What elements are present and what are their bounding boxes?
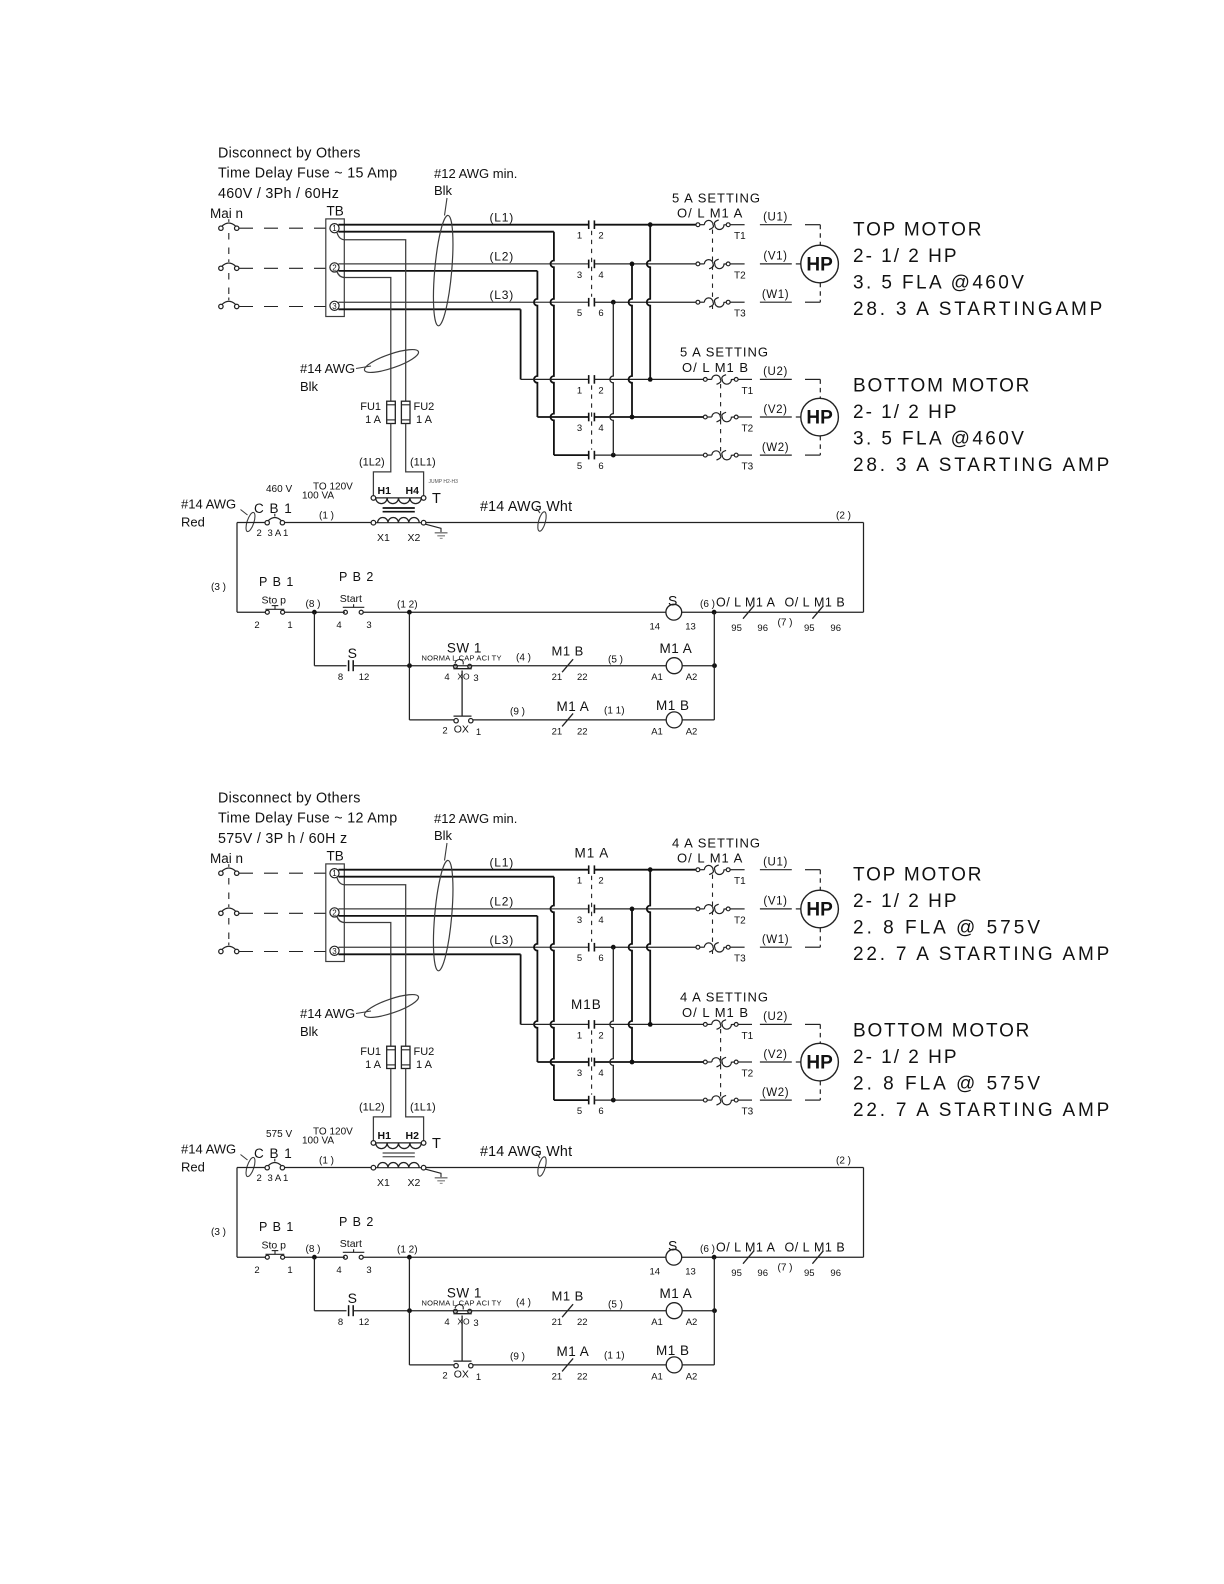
svg-text:M1 A: M1 A: [575, 846, 610, 861]
wire contactor M1B to overload (460V diagram): [594, 416, 703, 418]
svg-text:(L3): (L3): [490, 288, 515, 302]
wire contactor M1A to overload (575V diagram): [594, 946, 695, 948]
junction node T2 tie (460V diagram): [630, 262, 635, 267]
svg-text:21: 21: [552, 727, 563, 738]
svg-text:TB: TB: [327, 849, 344, 864]
svg-text:Sto p: Sto p: [262, 595, 287, 607]
svg-text:460 V: 460 V: [266, 484, 292, 495]
transformer T primary (575V diagram): [371, 1141, 376, 1146]
overload heater O/L M1A T1 (460V diagram): [696, 223, 700, 227]
svg-text:1 A: 1 A: [365, 1059, 382, 1071]
svg-text:22: 22: [577, 672, 588, 683]
svg-text:2: 2: [257, 1173, 262, 1184]
svg-text:T3: T3: [742, 462, 754, 473]
svg-text:5: 5: [577, 1106, 582, 1117]
svg-text:BOTTOM MOTOR: BOTTOM MOTOR: [853, 1021, 1031, 1042]
svg-text:Red: Red: [181, 515, 205, 530]
wire OX to contact M1A (460V diagram): [473, 719, 666, 721]
node rung2 at 1 2 drop (575V diagram): [407, 1308, 412, 1313]
dashed wire Main to TB (460V diagram): [239, 227, 326, 229]
svg-text:JUMP H2-H3: JUMP H2-H3: [429, 479, 459, 485]
wire node 8 drop (575V diagram): [313, 1257, 315, 1311]
wire (1L1) FU2 to H4 (575V diagram): [406, 1069, 424, 1141]
svg-text:NORMA L CAP ACI TY: NORMA L CAP ACI TY: [422, 653, 502, 662]
svg-text:2: 2: [332, 263, 337, 272]
wire lead U1 (460V diagram): [760, 224, 792, 226]
svg-text:OX: OX: [454, 724, 469, 736]
svg-text:4: 4: [444, 1317, 449, 1328]
wire coil M1A to right (460V diagram): [682, 665, 714, 667]
svg-text:Start: Start: [340, 1238, 362, 1250]
svg-text:C B 1: C B 1: [254, 501, 293, 516]
svg-text:(1 1): (1 1): [604, 1351, 625, 1362]
wire (3) left rail (575V diagram): [236, 1168, 238, 1258]
svg-text:5: 5: [577, 308, 582, 319]
svg-text:(8 ): (8 ): [306, 1244, 321, 1255]
wire contactor M1B to overload (575V diagram): [594, 1023, 703, 1025]
svg-text:M1 B: M1 B: [552, 1289, 584, 1304]
motor HP bottom (575V diagram): [801, 1043, 839, 1081]
wire S contact to coil M1A (575V diagram): [353, 1310, 666, 1312]
svg-text:X2: X2: [408, 1177, 421, 1189]
svg-text:1: 1: [332, 224, 337, 233]
svg-text:(1L2): (1L2): [359, 457, 385, 469]
svg-text:3. 5 FLA @460V: 3. 5 FLA @460V: [853, 273, 1026, 294]
svg-text:(U2): (U2): [763, 366, 788, 378]
selector contact OX (460V diagram): [454, 715, 472, 717]
wire L1 to contactor M1A pole 1 (460V diagram): [339, 224, 589, 226]
contactor M1B contact 3-4 (575V diagram): [588, 1058, 590, 1067]
wire lead V2 (460V diagram): [760, 416, 792, 418]
svg-text:95: 95: [804, 1268, 815, 1279]
svg-text:2: 2: [442, 1371, 447, 1382]
junction node T1 tie (575V diagram): [648, 867, 653, 872]
svg-text:O/ L M1 B: O/ L M1 B: [682, 360, 749, 375]
svg-text:2: 2: [257, 528, 262, 539]
svg-text:A2: A2: [686, 672, 698, 683]
wire Stop to node 8 (460V diagram): [285, 611, 345, 613]
overload heater O/L M1B T2 (460V diagram): [703, 415, 707, 419]
svg-text:Mai n: Mai n: [210, 206, 243, 221]
svg-text:S: S: [348, 645, 357, 661]
node rung2 at 1 2 drop (460V diagram): [407, 663, 412, 668]
svg-text:3: 3: [366, 620, 371, 631]
wire S contact to coil M1A (460V diagram): [353, 665, 666, 667]
svg-text:TB: TB: [327, 204, 344, 219]
dashed linkage contactor M1B (460V diagram): [591, 385, 593, 449]
svg-text:(1L1): (1L1): [410, 1102, 436, 1114]
svg-text:T: T: [432, 1136, 441, 1152]
motor HP bottom (460V diagram): [801, 398, 839, 436]
svg-text:T3: T3: [742, 1107, 754, 1118]
right rail wire (575V diagram): [863, 1168, 865, 1258]
svg-text:Mai n: Mai n: [210, 851, 243, 866]
cable marker ellipse white wire (460V diagram): [536, 511, 548, 532]
terminal TB-2 (575V diagram): [330, 908, 339, 917]
leader line #14 AWG Red (460V diagram): [241, 510, 248, 516]
svg-text:(1 ): (1 ): [319, 511, 334, 522]
fuse FU1 1A (460V diagram): [387, 401, 396, 423]
svg-text:5: 5: [577, 953, 582, 964]
svg-text:(5 ): (5 ): [608, 655, 623, 666]
fuse FU1 1A (575V diagram): [387, 1046, 396, 1068]
svg-text:A2: A2: [686, 1317, 698, 1328]
svg-text:M1 A: M1 A: [660, 641, 693, 656]
svg-text:(7 ): (7 ): [778, 1263, 793, 1274]
wire node 12 to S (575V diagram): [363, 1256, 666, 1258]
svg-text:Time Delay Fuse ~ 15 Amp: Time Delay Fuse ~ 15 Amp: [218, 166, 398, 182]
svg-text:M1 B: M1 B: [656, 1343, 690, 1358]
wire tap L1 to FU2 (460V diagram): [337, 233, 406, 402]
svg-text:(U1): (U1): [763, 857, 788, 869]
svg-text:Disconnect by Others: Disconnect by Others: [218, 791, 361, 807]
svg-text:(V1): (V1): [763, 251, 787, 263]
svg-text:(1 2): (1 2): [397, 1245, 418, 1256]
contactor M1A contact 3-4 (460V diagram): [588, 260, 590, 269]
svg-text:O/ L: O/ L: [716, 1241, 742, 1255]
svg-text:13: 13: [685, 622, 696, 633]
right rail wire (460V diagram): [863, 523, 865, 613]
svg-text:FU1: FU1: [360, 1046, 381, 1058]
svg-text:12: 12: [359, 1317, 370, 1328]
disconnect switch Main pole 3 (460V diagram): [219, 304, 223, 308]
svg-text:3: 3: [473, 1318, 478, 1329]
svg-text:Blk: Blk: [300, 1024, 319, 1039]
terminal TB-3 (460V diagram): [330, 301, 339, 310]
svg-text:(3 ): (3 ): [211, 582, 226, 593]
svg-text:T1: T1: [742, 1031, 754, 1042]
svg-text:(V2): (V2): [763, 404, 787, 416]
dashed linkage Main (460V diagram): [228, 233, 230, 260]
svg-text:O/ L M1 B: O/ L M1 B: [682, 1005, 749, 1020]
wire L1 to contactor M1B pole 3 (575V diagram): [339, 876, 554, 878]
svg-text:H1: H1: [378, 1130, 392, 1142]
svg-text:XO: XO: [457, 672, 470, 682]
wire node 8 drop (460V diagram): [313, 612, 315, 666]
overload heater O/L M1A T1 (575V diagram): [696, 868, 700, 872]
svg-text:Blk: Blk: [300, 379, 319, 394]
disconnect switch Main pole 2 (460V diagram): [219, 266, 223, 270]
svg-text:3. 5 FLA @460V: 3. 5 FLA @460V: [853, 429, 1026, 450]
node (6) (460V diagram): [712, 610, 717, 615]
svg-text:X1: X1: [377, 1177, 390, 1189]
svg-text:4: 4: [598, 915, 603, 926]
cable marker ellipse #14 AWG (460V diagram): [362, 345, 420, 377]
wire (2) X2 to right rail (460V diagram): [426, 522, 864, 524]
svg-text:(W2): (W2): [762, 442, 789, 454]
leader line #14 AWG (575V diagram): [356, 1011, 371, 1014]
svg-text:H1: H1: [378, 485, 392, 497]
wire L3 to contactor M1A pole 3 (575V diagram): [339, 946, 589, 948]
svg-text:(9 ): (9 ): [510, 707, 525, 718]
svg-text:(6 ): (6 ): [700, 599, 715, 610]
svg-text:6: 6: [598, 308, 603, 319]
wire rung1 left (460V diagram): [237, 611, 265, 613]
svg-text:(9 ): (9 ): [510, 1352, 525, 1363]
dashed linkage contactor M1B (575V diagram): [591, 1030, 593, 1094]
svg-text:4: 4: [444, 672, 449, 683]
svg-text:#14 AWG Wht: #14 AWG Wht: [480, 499, 572, 515]
overload heater O/L M1A T3 (460V diagram): [696, 300, 700, 304]
svg-text:O/ L: O/ L: [716, 596, 742, 610]
svg-text:HP: HP: [806, 900, 833, 921]
svg-text:5: 5: [577, 461, 582, 472]
wire coil M1B to right (460V diagram): [682, 719, 714, 721]
svg-text:1: 1: [577, 231, 582, 242]
svg-text:(L1): (L1): [490, 855, 515, 869]
svg-text:(1 1): (1 1): [604, 706, 625, 717]
leader line #12 AWG (460V diagram): [445, 198, 448, 216]
wire contactor M1A to overload (575V diagram): [594, 869, 695, 871]
svg-text:4: 4: [598, 1068, 603, 1079]
wire L1 to contactor M1B pole 3 (460V diagram): [339, 231, 554, 233]
svg-text:22: 22: [577, 1372, 588, 1383]
wire (3) left rail (460V diagram): [236, 523, 238, 613]
svg-text:4: 4: [336, 1265, 341, 1276]
svg-text:(L2): (L2): [490, 895, 515, 909]
wire lead W1 (575V diagram): [760, 946, 792, 948]
wire contactor M1B to overload (575V diagram): [594, 1099, 703, 1101]
motor HP top (575V diagram): [801, 890, 839, 928]
svg-text:T2: T2: [734, 915, 746, 926]
svg-text:(W2): (W2): [762, 1087, 789, 1099]
svg-text:M1 A: M1 A: [745, 596, 776, 610]
svg-text:3: 3: [577, 915, 582, 926]
svg-text:M1 A: M1 A: [557, 699, 590, 714]
svg-text:O/ L: O/ L: [785, 596, 811, 610]
svg-text:3: 3: [577, 423, 582, 434]
cable marker ellipse red wire (575V diagram): [244, 1156, 257, 1177]
contactor M1B contact 5-6 (575V diagram): [588, 1096, 590, 1105]
cable marker ellipse #14 AWG (575V diagram): [362, 990, 420, 1022]
transformer T secondary (575V diagram): [371, 1165, 376, 1170]
svg-text:22. 7 A STARTING AMP: 22. 7 A STARTING AMP: [853, 944, 1112, 965]
fuse FU2 1A (460V diagram): [401, 401, 410, 423]
svg-text:(4 ): (4 ): [516, 652, 531, 663]
contactor M1B contact 5-6 (460V diagram): [588, 451, 590, 460]
svg-text:(1L1): (1L1): [410, 457, 436, 469]
svg-text:2. 8 FLA @ 575V: 2. 8 FLA @ 575V: [853, 918, 1043, 939]
svg-text:M1 A: M1 A: [557, 1344, 590, 1359]
svg-text:M1 A: M1 A: [660, 1286, 693, 1301]
wire L3 to contactor M1B pole 1 (575V diagram): [339, 953, 521, 955]
svg-text:M1 B: M1 B: [656, 698, 690, 713]
svg-text:2: 2: [442, 726, 447, 737]
svg-text:4: 4: [336, 620, 341, 631]
svg-text:P B 1: P B 1: [259, 1220, 294, 1234]
node (8) (575V diagram): [312, 1255, 317, 1260]
dashed wire Main to TB (460V diagram): [239, 267, 326, 269]
svg-text:14: 14: [650, 1267, 661, 1278]
cable marker ellipse #12 AWG (575V diagram): [430, 860, 457, 972]
svg-text:XO: XO: [457, 1317, 470, 1327]
svg-text:2: 2: [254, 1265, 259, 1276]
svg-text:P B 2: P B 2: [339, 1215, 374, 1229]
svg-text:(U1): (U1): [763, 212, 788, 224]
wire X1 side to CB1 (575V diagram): [237, 1167, 265, 1169]
svg-text:460V / 3Ph / 60Hz: 460V / 3Ph / 60Hz: [218, 186, 339, 202]
svg-text:M1 B: M1 B: [814, 596, 845, 610]
svg-text:1: 1: [283, 1173, 288, 1184]
svg-text:6: 6: [598, 953, 603, 964]
dashed wire Main to TB (575V diagram): [239, 872, 326, 874]
svg-text:22. 7 A STARTING AMP: 22. 7 A STARTING AMP: [853, 1100, 1112, 1121]
svg-text:96: 96: [757, 1268, 768, 1279]
dashed linkage O/L M1B (460V diagram): [720, 384, 722, 452]
svg-text:M1 A: M1 A: [745, 1241, 776, 1255]
svg-text:TOP MOTOR: TOP MOTOR: [853, 220, 983, 241]
terminal block TB (460V diagram): [326, 219, 345, 317]
svg-text:(1 2): (1 2): [397, 600, 418, 611]
svg-text:575 V: 575 V: [266, 1129, 292, 1140]
wire lead W2 (460V diagram): [760, 454, 792, 456]
svg-text:2: 2: [598, 1030, 603, 1041]
svg-text:(U2): (U2): [763, 1011, 788, 1023]
wire tap L2 to FU1 (575V diagram): [337, 917, 391, 1047]
disconnect switch Main pole 2 (575V diagram): [219, 911, 223, 915]
svg-text:(4 ): (4 ): [516, 1297, 531, 1308]
wire (1) CB1 to X1 (575V diagram): [285, 1167, 371, 1169]
cable marker ellipse white wire (575V diagram): [536, 1156, 548, 1177]
svg-text:(1L2): (1L2): [359, 1102, 385, 1114]
svg-text:T1: T1: [742, 386, 754, 397]
overload heater O/L M1A T3 (575V diagram): [696, 945, 700, 949]
svg-text:O/ L M1 A: O/ L M1 A: [677, 206, 743, 221]
svg-text:1: 1: [287, 1265, 292, 1276]
svg-text:3: 3: [577, 270, 582, 281]
svg-text:#14 AWG Wht: #14 AWG Wht: [480, 1144, 572, 1160]
contactor M1B contact 3-4 (460V diagram): [588, 413, 590, 422]
svg-text:96: 96: [757, 623, 768, 634]
node (1 2) (460V diagram): [407, 610, 412, 615]
selector contact OX (575V diagram): [454, 1360, 472, 1362]
svg-text:2: 2: [332, 908, 337, 917]
svg-text:Blk: Blk: [434, 828, 453, 843]
motor HP top (460V diagram): [801, 245, 839, 283]
disconnect switch Main pole 1 (575V diagram): [219, 871, 223, 875]
svg-text:96: 96: [830, 623, 841, 634]
overload heater O/L M1B T3 (575V diagram): [703, 1098, 707, 1102]
svg-text:(V2): (V2): [763, 1049, 787, 1061]
svg-text:95: 95: [731, 623, 742, 634]
wire tap L1 to FU2 (575V diagram): [337, 878, 406, 1047]
wire rung1 left (575V diagram): [237, 1256, 265, 1258]
svg-text:P B 2: P B 2: [339, 570, 374, 584]
wire L2 to contactor M1B pole 2 (575V diagram): [339, 915, 538, 917]
svg-text:1 A: 1 A: [416, 1059, 433, 1071]
svg-text:A2: A2: [686, 1372, 698, 1383]
dashed linkage contactor M1A (460V diagram): [591, 231, 593, 297]
contactor M1A contact 5-6 (575V diagram): [588, 943, 590, 952]
svg-text:5 A SETTING: 5 A SETTING: [672, 191, 761, 206]
svg-text:OX: OX: [454, 1369, 469, 1381]
overload heater O/L M1A T2 (460V diagram): [696, 262, 700, 266]
svg-text:8: 8: [338, 1317, 343, 1328]
dashed linkage contactor M1A (575V diagram): [591, 876, 593, 942]
svg-text:22: 22: [577, 1317, 588, 1328]
svg-text:Red: Red: [181, 1160, 205, 1175]
wire contactor M1A to overload (460V diagram): [594, 263, 695, 265]
svg-text:(7 ): (7 ): [778, 618, 793, 629]
fuse FU2 1A (575V diagram): [401, 1046, 410, 1068]
svg-text:T: T: [432, 491, 441, 507]
svg-text:#14 AWG: #14 AWG: [181, 497, 236, 512]
svg-text:T1: T1: [734, 231, 746, 242]
svg-text:21: 21: [552, 1317, 563, 1328]
wire X1 side to CB1 (460V diagram): [237, 522, 265, 524]
svg-text:HP: HP: [806, 255, 833, 276]
wire node 12 drop to rung3 (575V diagram): [408, 1257, 410, 1365]
terminal TB-1 (575V diagram): [330, 869, 339, 878]
leader line #14 AWG Red (575V diagram): [241, 1155, 248, 1161]
svg-text:(2 ): (2 ): [836, 1156, 851, 1167]
svg-text:M1 B: M1 B: [814, 1241, 845, 1255]
contactor M1A contact 1-2 (575V diagram): [588, 865, 590, 874]
svg-text:#12 AWG min.: #12 AWG min.: [434, 811, 517, 826]
node rung2 right (460V diagram): [712, 663, 717, 668]
svg-text:4: 4: [598, 423, 603, 434]
overload heater O/L M1B T2 (575V diagram): [703, 1060, 707, 1064]
svg-text:T2: T2: [742, 1069, 754, 1080]
svg-text:Time Delay Fuse ~ 12 Amp: Time Delay Fuse ~ 12 Amp: [218, 811, 398, 827]
svg-text:(L2): (L2): [490, 250, 515, 264]
linkage SW1 to OX (460V diagram): [461, 671, 463, 717]
svg-text:5 A SETTING: 5 A SETTING: [680, 345, 769, 360]
svg-text:2- 1/ 2 HP: 2- 1/ 2 HP: [853, 891, 959, 912]
svg-text:(V1): (V1): [763, 896, 787, 908]
svg-text:1: 1: [332, 869, 337, 878]
wire (2) X2 to right rail (575V diagram): [426, 1167, 864, 1169]
wire OX to contact M1A (575V diagram): [473, 1364, 666, 1366]
svg-text:(L3): (L3): [490, 933, 515, 947]
svg-text:#14 AWG: #14 AWG: [300, 361, 355, 376]
svg-text:3: 3: [366, 1265, 371, 1276]
svg-text:3: 3: [577, 1068, 582, 1079]
svg-text:1 A: 1 A: [416, 414, 433, 426]
wire tap L2 to FU1 (460V diagram): [337, 272, 391, 402]
wire Stop to node 8 (575V diagram): [285, 1256, 345, 1258]
wire lead V2 (575V diagram): [760, 1061, 792, 1063]
svg-text:95: 95: [731, 1268, 742, 1279]
svg-text:M1 B: M1 B: [552, 644, 584, 659]
svg-text:1: 1: [577, 1030, 582, 1041]
svg-text:C B 1: C B 1: [254, 1146, 293, 1161]
terminal block TB (575V diagram): [326, 864, 345, 962]
wire L2 to contactor M1A pole 2 (575V diagram): [339, 908, 589, 910]
wire lead U2 (575V diagram): [760, 1023, 792, 1025]
svg-text:2: 2: [598, 385, 603, 396]
svg-text:T2: T2: [742, 424, 754, 435]
svg-text:#14 AWG: #14 AWG: [181, 1142, 236, 1157]
svg-text:(W1): (W1): [762, 934, 789, 946]
svg-text:1: 1: [476, 727, 481, 738]
svg-text:HP: HP: [806, 408, 833, 429]
svg-text:#12 AWG min.: #12 AWG min.: [434, 166, 517, 181]
svg-text:13: 13: [685, 1267, 696, 1278]
contactor M1B contact 1-2 (575V diagram): [588, 1020, 590, 1029]
svg-text:3: 3: [473, 673, 478, 684]
wire node 12 drop to rung3 (460V diagram): [408, 612, 410, 720]
svg-text:95: 95: [804, 623, 815, 634]
wire lead W1 (460V diagram): [760, 301, 792, 303]
junction node T2 tie (575V diagram): [630, 907, 635, 912]
wire contactor M1A to overload (460V diagram): [594, 301, 695, 303]
transformer T secondary (460V diagram): [371, 520, 376, 525]
terminal TB-3 (575V diagram): [330, 946, 339, 955]
svg-text:O/ L M1 A: O/ L M1 A: [677, 851, 743, 866]
svg-text:FU1: FU1: [360, 401, 381, 413]
contactor M1A contact 1-2 (460V diagram): [588, 220, 590, 229]
